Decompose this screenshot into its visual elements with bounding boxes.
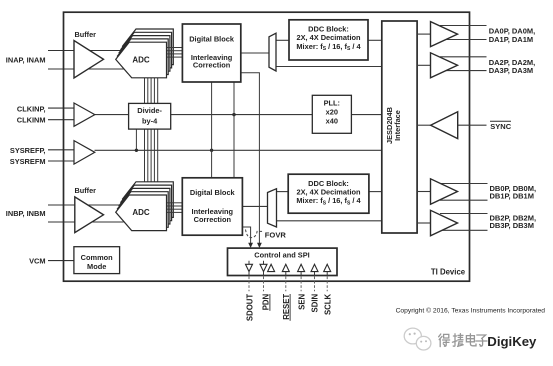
wire SYSREFP/SYSREFM input pair [48, 150, 74, 161]
wire DA2 output [440, 56, 487, 58]
wire upper digital block to mux [241, 52, 269, 54]
SYNC input buffer [431, 112, 458, 139]
wire upper bypass to JESD [276, 66, 382, 68]
wire JESD to output buffer 1 [417, 33, 430, 35]
pin arrow PDN (out half) [260, 264, 267, 271]
ADC stack A (interleaved, top) [116, 29, 174, 78]
svg-text:SYSREFM: SYSREFM [10, 157, 46, 166]
wire clock bundle (divide-by-4 to ADC stacks) [145, 78, 158, 196]
block digital block B (bottom) [182, 178, 242, 235]
pin arrow SCLK (in) [324, 264, 331, 271]
clock input buffer [74, 103, 95, 126]
pin stub SEN [300, 272, 302, 276]
svg-text:Divide-: Divide- [137, 106, 162, 115]
svg-text:Mixer: fS / 16, fS / 4: Mixer: fS / 16, fS / 4 [296, 42, 361, 52]
pin stub above SDOUT arrow [248, 261, 250, 265]
block divide-by-4 [129, 103, 171, 129]
svg-text:ADC: ADC [132, 55, 150, 64]
svg-text:Digital Block: Digital Block [190, 188, 236, 197]
wire INAP/INAM input pair [48, 51, 124, 70]
wire DA1 output [440, 39, 487, 41]
wire upper mux to DDC A [276, 39, 289, 41]
pin stub RESET [285, 272, 287, 276]
svg-text:DB1P, DB1M: DB1P, DB1M [490, 192, 534, 201]
output buffer 2 (DA2/DA3) [431, 53, 458, 78]
output buffer 3 (DB0/DB1) [431, 179, 458, 205]
svg-text:Control and SPI: Control and SPI [254, 251, 309, 260]
svg-text:PDN: PDN [261, 293, 270, 310]
watermark text 得捷电子 (pseudo glyphs) [439, 334, 487, 347]
wire lower digital block to mux [242, 205, 267, 207]
wire DB3 output [440, 229, 488, 231]
svg-text:x20: x20 [326, 107, 338, 116]
pin stub SCLK [326, 272, 328, 276]
pin arrow SDOUT (out) [246, 264, 253, 271]
svg-text:Interface: Interface [393, 110, 402, 141]
pin arrow SEN (in) [298, 264, 305, 271]
junction dot SYSREF/divide tap [135, 149, 138, 152]
wire SYNC to JESD [417, 124, 431, 126]
svg-text:CLKINM: CLKINM [17, 116, 46, 125]
junction dot SYSREF/interleave line [210, 149, 213, 152]
wire DA0 output [440, 25, 487, 27]
svg-text:2X, 4X Decimation: 2X, 4X Decimation [296, 188, 361, 197]
pin stub PDN [263, 272, 265, 276]
wire upper digital block to control/SPI elbow [241, 73, 260, 244]
wire SYSREF distribution line [95, 149, 382, 151]
mux A (top) [269, 33, 276, 71]
wire DB2 output [440, 213, 488, 215]
svg-text:SYNC: SYNC [490, 122, 511, 131]
block DDC A (top) [289, 20, 368, 60]
svg-text:Correction: Correction [193, 60, 231, 69]
svg-text:DA3P, DA3M: DA3P, DA3M [489, 66, 533, 75]
svg-text:Mixer: fS / 16, fS / 4: Mixer: fS / 16, fS / 4 [296, 196, 361, 206]
ADC stack B (interleaved, bottom) [116, 182, 174, 231]
pin arrow SDIN (in) [311, 264, 318, 271]
pin arrow PDN (in half) [268, 264, 275, 271]
wire lower digital block to control/SPI elbow [242, 227, 250, 243]
svg-text:INBP, INBM: INBP, INBM [6, 209, 46, 218]
wire CLKINP/CLKINM input pair [48, 108, 74, 120]
svg-text:Digital Block: Digital Block [189, 35, 235, 44]
svg-text:RESET: RESET [282, 294, 291, 320]
wire JESD to output buffer 3 [417, 191, 430, 193]
pin arrow RESET (in) [282, 264, 289, 271]
svg-text:Correction: Correction [194, 215, 232, 224]
svg-text:SYSREFP,: SYSREFP, [10, 146, 46, 155]
block DDC B (bottom) [288, 174, 369, 213]
wire clock line (buffer to divide-by-4, PLL, JESD) [95, 114, 382, 116]
svg-text:Buffer: Buffer [75, 30, 97, 39]
svg-text:DigiKey: DigiKey [487, 334, 537, 349]
wire DB1 output [440, 199, 488, 201]
pin stub above PDN arrow [263, 261, 265, 265]
svg-text:2X, 4X Decimation: 2X, 4X Decimation [296, 33, 361, 42]
pin stub SDIN [314, 272, 316, 276]
svg-text:DB3P, DB3M: DB3P, DB3M [490, 221, 534, 230]
svg-text:Buffer: Buffer [75, 186, 97, 195]
wire lower mux to DDC B [277, 191, 289, 193]
svg-text:Copyright © 2016, Texas Instru: Copyright © 2016, Texas Instruments Inco… [396, 307, 546, 315]
wire DA3 output [440, 70, 487, 72]
block digital block A (top) [182, 24, 240, 82]
block control and SPI [228, 248, 338, 275]
wire SYNC input [458, 124, 487, 126]
arrowhead into control/SPI (right) [257, 243, 262, 248]
wire lower bypass to JESD [277, 220, 382, 222]
wire ADC B to digital block (4 lines) [167, 203, 183, 213]
svg-text:VCM: VCM [29, 256, 45, 265]
buffer amp B (bottom) [75, 197, 104, 233]
wire ADC A to digital block (4 lines) [167, 48, 183, 58]
block PLL [312, 95, 351, 133]
svg-text:x40: x40 [326, 117, 338, 126]
pin stub SDOUT [248, 272, 250, 276]
svg-text:by-4: by-4 [142, 116, 158, 125]
wire lower DDC B to JESD [369, 191, 382, 193]
svg-text:FOVR: FOVR [265, 230, 287, 239]
svg-text:Common: Common [81, 253, 114, 262]
wire INBP/INBM input pair [48, 205, 124, 222]
svg-text:SCLK: SCLK [323, 293, 332, 315]
output buffer 4 (DB2/DB3) [431, 210, 458, 236]
svg-text:SDOUT: SDOUT [245, 294, 254, 322]
wire DB0 output [440, 183, 488, 185]
svg-text:TI Device: TI Device [431, 267, 466, 276]
wire JESD to output buffer 4 [417, 222, 430, 224]
watermark wechat logo [404, 328, 431, 350]
wire interleave vertical B [233, 82, 235, 178]
wire interleave vertical A [211, 82, 213, 178]
wire JESD to output buffer 2 [417, 64, 430, 66]
svg-text:ADC: ADC [132, 208, 150, 217]
svg-text:Mode: Mode [87, 262, 106, 271]
svg-text:DA1P, DA1M: DA1P, DA1M [489, 35, 533, 44]
block common mode [74, 247, 120, 274]
arrowhead into control/SPI (left) [248, 243, 253, 248]
mux B (bottom) [268, 189, 277, 227]
buffer amp A (top) [74, 41, 104, 79]
wire upper DDC A to JESD [368, 39, 382, 41]
svg-text:CLKINP,: CLKINP, [17, 105, 46, 114]
block JESD204B interface [382, 21, 417, 233]
wire FOVR dashed indicator [246, 230, 263, 238]
svg-text:INAP, INAM: INAP, INAM [6, 55, 46, 64]
outer device boundary [64, 12, 470, 281]
svg-text:SDIN: SDIN [310, 293, 319, 312]
svg-text:PLL:: PLL: [324, 98, 340, 107]
output buffer 1 (DA0/DA1) [431, 22, 458, 47]
svg-text:SEN: SEN [297, 293, 306, 309]
sysref input buffer [74, 141, 95, 165]
junction dot clock/interleave line [232, 113, 235, 116]
wire VCM input [48, 260, 74, 262]
wire SYSREF tap to divide-by-4 [135, 129, 137, 150]
